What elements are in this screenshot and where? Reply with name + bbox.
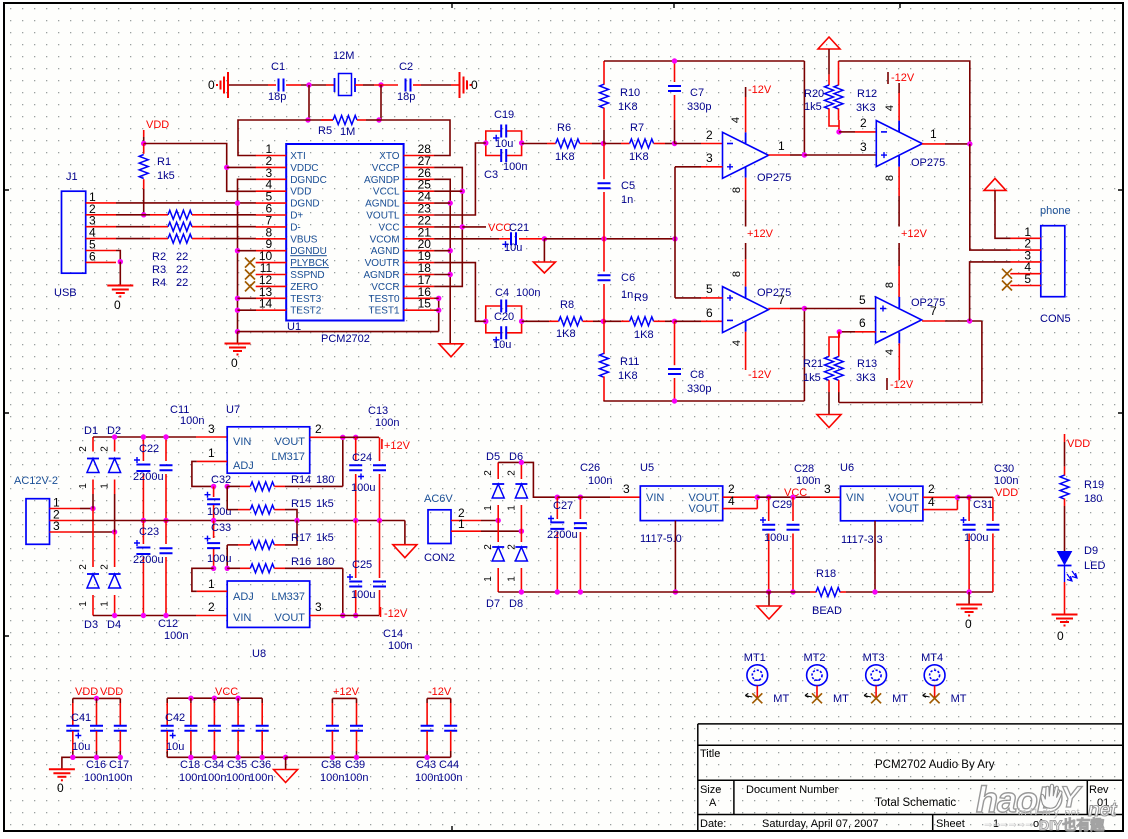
svg-text:TEST1: TEST1 [368,306,400,317]
svg-text:100n: 100n [516,287,540,299]
resistor R16 180 [227,567,240,569]
svg-text:R15: R15 [291,498,311,510]
svg-text:5: 5 [859,293,866,307]
svg-text:7: 7 [930,304,937,318]
op3 non-inverting input pin5 wire [675,297,701,299]
wire pin18 stub to vertical [434,274,450,276]
pin 19 VOUTR of U1 [404,262,435,264]
diode D1 [92,437,94,452]
svg-text:Sheet: Sheet [936,818,965,830]
svg-text:OP275: OP275 [911,157,945,169]
capacitor C33 100u [213,521,215,539]
connector J1 USB [62,191,86,273]
mid rail ground drop [404,521,406,545]
junction C33 bottom [211,566,216,571]
wire U5 GND pin down [674,521,676,592]
svg-text:8: 8 [731,187,743,193]
feedback wire bottom op3 [603,400,804,402]
svg-text:10u: 10u [166,741,184,753]
junction C16 bottom [94,755,99,760]
svg-text:MT2: MT2 [804,652,826,664]
vertical VCOM to op inputs [674,167,676,239]
junction R9/C8 node at op3 pin6 [672,319,677,324]
bank4 top rail [427,697,451,699]
capacitor pair C4 100n / C20 10u [486,306,501,321]
wire C2 to ground [413,84,421,86]
wire +12V rail to power label [340,436,379,438]
svg-text:C29: C29 [772,499,792,511]
svg-text:1M: 1M [340,126,355,138]
svg-text:180: 180 [316,556,334,568]
capacitor C39 100n [356,698,358,703]
svg-text:1: 1 [78,601,89,607]
wire VOUTR pin19 to C20 pair [434,263,486,322]
bank2 bottom rail [167,756,285,758]
crystal Y1 12M [335,78,356,92]
bank2 junctions top [188,696,193,701]
svg-text:C43: C43 [416,759,436,771]
svg-text:3: 3 [623,482,630,496]
junction VOUT- node R16 [340,613,345,618]
wire into crystal [326,84,335,86]
svg-text:R12: R12 [857,88,877,100]
wire pin20 stub to vertical [434,250,450,252]
junction C29 bottom [766,589,771,594]
capacitor C14 100n [379,521,381,579]
junction C20 right [519,319,524,324]
capacitor C7 330p feedback [674,61,676,82]
negative rail wire to LM337 VIN [93,615,196,617]
pin 5 of J1 [86,250,116,252]
wire node to op1 inverting input pin2 [675,143,702,145]
svg-text:2: 2 [860,116,867,130]
junction D2 top [112,434,117,439]
svg-text:R11: R11 [620,356,639,368]
diode D4 [114,532,116,567]
svg-text:Saturday, April 07, 2007: Saturday, April 07, 2007 [762,818,879,830]
svg-text:3: 3 [208,422,215,436]
pin 2 of CON2 [451,520,481,522]
svg-text:1: 1 [778,139,785,153]
feedback wire top op1 [604,60,804,62]
svg-text:U5: U5 [640,462,654,474]
wire C20 to R8 [522,320,549,322]
ground 0 below U1 [237,332,239,343]
svg-text:CON2: CON2 [424,552,455,564]
svg-text:1K8: 1K8 [634,329,654,341]
svg-text:VDD: VDD [1067,438,1090,450]
svg-text:D8: D8 [509,598,523,610]
svg-text:⇒⇒: ⇒⇒ [984,820,1001,831]
pin 1 ADJ of U8 [197,590,228,592]
svg-text:6: 6 [706,306,713,320]
junction R1 to D+ row [141,212,146,217]
junction C26 top [578,495,583,500]
op3 power pin 4 to -12V [745,332,747,370]
svg-text:22: 22 [176,251,188,263]
junction op4 output [967,318,972,323]
junction AGNDL pin24 [448,200,453,205]
svg-text:1k5: 1k5 [803,372,821,384]
svg-text:D7: D7 [486,598,500,610]
diode D5 [497,462,499,479]
svg-text:14: 14 [259,297,273,311]
svg-text:Title: Title [700,748,720,760]
svg-text:C35: C35 [227,759,247,771]
junction C32 top [211,484,216,489]
svg-text:100n: 100n [320,772,344,784]
svg-text:VIN: VIN [233,612,251,624]
junction VCOM at opamp inputs column [672,236,677,241]
ground arrow mid rail [393,545,417,558]
wire AGNDP pin26 to AGND vertical [434,179,450,343]
svg-text:100u: 100u [351,482,375,494]
feedback wire top op2 [838,61,840,85]
svg-text:1K8: 1K8 [629,151,649,163]
junction op2 inverting node [836,129,841,134]
wire pin14 stub to vertical [238,309,257,311]
junction C13 bottom [377,518,382,523]
junction op3 output [802,306,807,311]
resistor R8 1K8 [559,317,583,326]
svg-text:R16: R16 [291,556,311,568]
svg-text:2: 2 [100,564,111,570]
capacitor C31 100u [968,497,970,521]
wire U6 GND pin down [874,521,876,592]
capacitor C44 100n [450,698,452,703]
svg-text:R20: R20 [804,88,824,100]
pin 2 of CON5 [1010,249,1041,251]
capacitor C26 100n [579,497,581,519]
svg-text:2: 2 [100,446,111,452]
junction TEST2 pin14 tap [235,308,240,313]
svg-text:6: 6 [859,316,866,330]
svg-text:DIY也有趣: DIY也有趣 [1039,817,1105,833]
capacitor C11 100n [165,437,167,461]
capacitor C6 1n [603,239,605,272]
bank2 top rail [167,697,262,699]
wire TEST pins vertical [438,298,440,331]
wire R19 to D9 [1064,506,1066,552]
svg-text:100n: 100n [344,772,368,784]
wire to U5 VIN pin3 [557,496,610,498]
junction C20 left [483,319,488,324]
wire VOUTL pin23 to C19 pair [434,143,486,215]
pin 7 D- of U1 [256,226,287,228]
bank2 junctions bottom [188,755,193,760]
svg-text:100u: 100u [764,532,788,544]
capacitor 100n bank2 [190,698,192,703]
junction D6 top [519,460,524,465]
ground bars below D9 [1052,615,1078,626]
capacitor C30 100n [992,497,994,521]
svg-text:Total Schematic: Total Schematic [875,797,956,809]
mounting hole MT3 [866,665,887,686]
junction VCC node C29 [766,495,771,500]
svg-text:100n: 100n [179,772,203,784]
svg-text:10u: 10u [495,138,513,150]
svg-text:1: 1 [506,576,517,582]
pin 8 VBUS of U1 [256,238,287,240]
svg-text:4: 4 [730,117,742,123]
svg-text:C13: C13 [368,405,388,417]
diode D7 [497,521,499,543]
svg-text:LM317: LM317 [271,451,305,463]
pin 13 TEST3 of U1 [256,297,287,299]
pin 15 TEST1 of U1 [404,309,435,311]
capacitor C1 18p [279,79,284,92]
svg-text:C24: C24 [352,452,372,464]
pin 11 SSPND of U1 [256,274,287,276]
resistor R3 22 [168,222,192,231]
wire DGNDC pin3 to DGND vertical [238,179,257,331]
svg-text:-12V: -12V [748,84,772,96]
junction C24 bottom [353,518,358,523]
pin 3 of J1 [86,226,116,228]
svg-text:4: 4 [728,494,735,508]
junction C31 bottom [966,589,971,594]
junction bridge left mid [496,518,501,523]
wire rail to banks 3/4 [286,756,451,758]
junction VCC pin22 [434,226,462,228]
pin 4 VDD of U1 [256,190,287,192]
svg-text:C33: C33 [211,522,231,534]
wire R5 row to XTO pin 28 [379,120,450,156]
svg-text:VOUTL: VOUTL [366,211,400,222]
svg-text:VDD: VDD [995,487,1018,499]
junction C24 top [353,435,358,440]
svg-text:VOUT: VOUT [688,503,719,515]
svg-text:1: 1 [78,483,89,489]
pin 6 of J1 [86,261,116,263]
IC U1 PCM2702 body [286,144,403,321]
svg-text:C39: C39 [345,759,365,771]
junction U6 GND on rail [872,589,877,594]
pin 4 VOUT of U6 [923,509,958,511]
junction DGNDU pin9 tap [235,248,240,253]
capacitor C42 10u [166,698,168,703]
svg-text:OP275: OP275 [911,297,945,309]
svg-text:7: 7 [778,293,785,307]
svg-text:VCCR: VCCR [371,282,399,293]
mounting hole MT4 [924,665,945,686]
pin 4 VOUT of U5 [723,508,758,510]
svg-text:1: 1 [208,446,215,460]
resistor R9 1K8 [630,317,654,326]
svg-text:18p: 18p [268,91,286,103]
capacitor C8 330p feedback [674,321,676,365]
svg-text:ADJ: ADJ [233,591,254,603]
svg-text:D5: D5 [486,451,500,463]
node junction left of crystal [306,82,311,87]
svg-text:100n: 100n [388,640,412,652]
junction C28 tap [790,495,795,500]
wire MT4 stub [934,686,936,699]
svg-text:R21: R21 [803,358,823,370]
svg-text:2: 2 [315,422,322,436]
node VDD junction [141,141,146,146]
svg-text:100n: 100n [994,475,1018,487]
pin 5 of CON5 [1010,285,1041,287]
svg-text:4: 4 [884,105,896,111]
no-connect X on MT1 [752,693,762,703]
capacitor C21 10u on VCOM [511,232,516,245]
wire VCC stub to net label [462,226,486,228]
svg-text:R17: R17 [291,532,311,544]
svg-text:0: 0 [231,356,238,370]
junction VCOM at C21 right [542,236,547,241]
mounting hole MT2 [807,665,828,686]
pin 9 DGNDU of U1 [256,250,287,252]
svg-text:AC6V: AC6V [424,493,453,505]
svg-text:TEST2: TEST2 [290,306,322,317]
svg-text:C21: C21 [509,222,529,234]
svg-text:1: 1 [208,577,215,591]
junction C32 bottom on mid rail [211,518,216,523]
junction R17 tap bottom [225,566,230,571]
svg-text:100n: 100n [438,772,462,784]
svg-text:100n: 100n [226,772,250,784]
svg-text:2: 2 [208,600,215,614]
pin 3 of AC12V-2 [50,531,81,533]
wire feedback down to op1 output [803,61,805,155]
pin 21 VCOM of U1 [404,238,435,240]
svg-text:2200u: 2200u [133,471,164,483]
svg-text:C30: C30 [994,463,1014,475]
junction D1/D3 node [90,506,95,511]
junction D4 bottom [112,613,117,618]
svg-text:VOUT: VOUT [888,503,919,515]
no-connect X on MT2 [812,693,822,703]
title block frame [698,724,1123,831]
capacitor 100n bank2 [213,698,215,703]
svg-text:100n: 100n [588,475,612,487]
ground bars bank1 [49,769,75,780]
wire VCC run to U6 [757,496,810,498]
no-connect X on pin 10 PLYBCK [245,258,255,268]
pin 22 VCC of U1 [404,226,435,228]
junction C23 bottom [141,613,146,618]
wire left xtal node down to R5 row [308,85,310,120]
wire crystal to right node [355,84,363,86]
svg-text:PCM2702: PCM2702 [321,333,370,345]
resistor R14 180 [227,485,240,487]
LED D9 [1058,552,1072,565]
svg-text:1K8: 1K8 [618,101,638,113]
power arrow +12V above R20 [818,37,840,49]
junction C19 right [519,140,524,145]
svg-text:3: 3 [53,519,60,533]
resistor R19 180 [1064,466,1066,475]
capacitor C2 18p [406,79,411,92]
junction TEST0 pin16 [436,296,441,301]
wire U7 ADJ down to R14 node [192,461,214,486]
wire pin9 stub to vertical [238,250,257,252]
wire junction down to ground arrow [543,239,545,262]
svg-text:1k5: 1k5 [316,498,334,510]
no-connect X on pin 11 SSPND [245,270,255,280]
capacitor C24 100u [355,437,357,461]
svg-text:3K3: 3K3 [856,102,876,114]
svg-text:VDD: VDD [100,686,123,698]
no-connect X on pin 12 ZERO [245,281,255,291]
junction C39 bottom [354,755,359,760]
svg-text:C41: C41 [71,712,91,724]
pin 10 PLYBCK of U1 [256,262,287,264]
svg-text:Date:: Date: [700,818,726,830]
svg-text:VCCP: VCCP [372,163,400,174]
mounting hole MT1 [747,665,768,686]
resistor R5 1M [308,119,333,121]
svg-text:VIN: VIN [233,436,251,448]
wire to op2 pin2 [839,131,855,133]
svg-text:4: 4 [884,349,896,355]
svg-text:4: 4 [731,340,743,346]
junction C11 top [163,434,168,439]
svg-text:180: 180 [316,474,334,486]
wire J1 pin1 to PCM2702 DGND pin5 [116,202,256,204]
pin 4 of CON5 [1010,273,1041,275]
capacitor C5 1n [603,144,605,180]
svg-text:AGNDP: AGNDP [364,175,400,186]
junction U6 outputs [955,495,960,500]
junction C11 bottom [163,518,168,523]
pin 14 TEST2 of U1 [256,309,287,311]
power arrow above phone pin1 [984,178,1006,190]
svg-text:100n: 100n [503,161,527,173]
svg-text:U6: U6 [840,462,854,474]
svg-text:1K8: 1K8 [555,151,575,163]
diode D3 [92,509,94,568]
capacitor pair C19 10u / C3 100n [486,131,501,143]
wire R5 row to XTI pin 1 [238,120,308,156]
junction DGND at pin5 row [235,200,240,205]
regulator U5 1117-5.0 body [640,486,722,521]
junction VCOM at C5/C6 column [601,236,606,241]
svg-text:10u: 10u [504,242,522,254]
svg-text:VIN: VIN [646,492,664,504]
junction C26 bottom [578,589,583,594]
svg-text:100n: 100n [249,772,273,784]
op-amp U2A OP275 left top [723,132,769,178]
svg-text:TEST0: TEST0 [368,294,400,305]
ground arrow below R21 [817,415,841,428]
svg-text:phone: phone [1040,205,1071,217]
svg-text:AGND: AGND [371,246,400,257]
svg-text:0: 0 [57,781,64,795]
svg-text:VCC: VCC [378,222,399,233]
wire C19 to R6 [522,143,547,145]
svg-text:C20: C20 [494,311,514,323]
capacitor C29 100u [768,497,770,521]
positive rail wire to LM317 VIN [93,436,196,438]
svg-text:R1: R1 [157,156,171,168]
svg-text:8: 8 [884,282,896,288]
op2 output pin1 [922,143,945,145]
wire op2 output to phone pin2 [970,144,1011,250]
svg-text:3: 3 [315,600,322,614]
pin 1 of CON5 [1010,237,1041,239]
wire CON2 pin1 to bridge [481,530,521,532]
wire VCCP pin27 to VCC vertical [434,167,462,286]
svg-text:1: 1 [100,601,111,607]
svg-text:100n: 100n [164,630,188,642]
svg-text:C26: C26 [580,462,600,474]
wire feedback up to op3 output [803,309,805,402]
svg-text:8: 8 [731,271,743,277]
junction R6/R7 node [601,141,606,146]
op3 output pin7 [768,308,790,310]
